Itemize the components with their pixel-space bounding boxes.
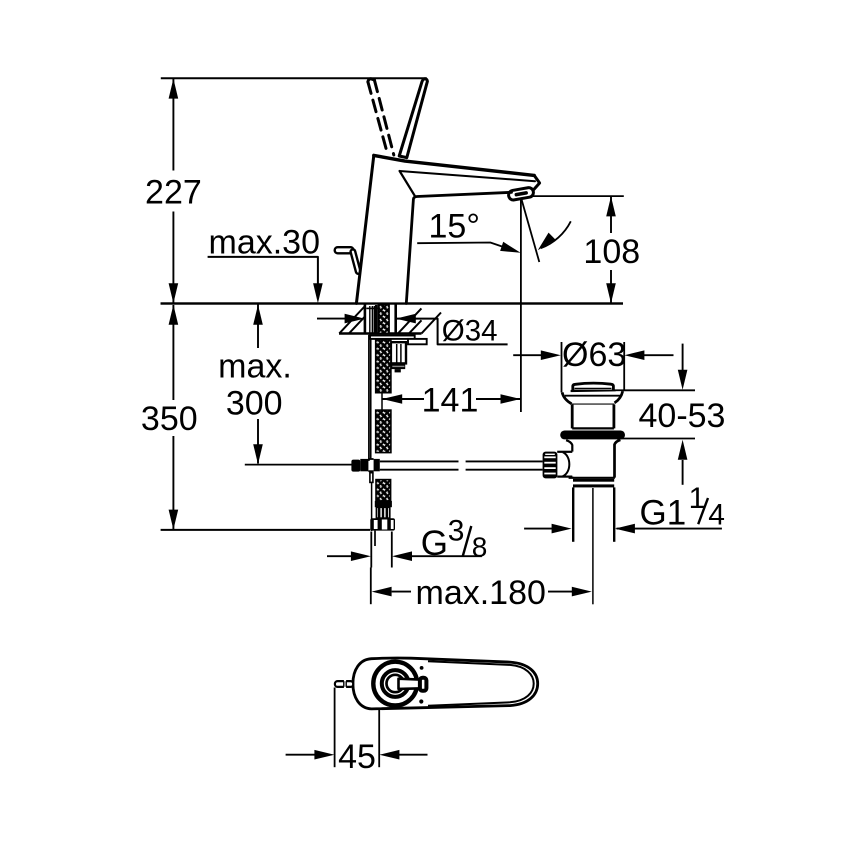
svg-text:max.180: max.180 xyxy=(416,574,546,612)
escutcheon screw dots xyxy=(420,666,424,670)
faucet body left edge xyxy=(356,155,373,303)
hose connector ribs xyxy=(377,507,390,518)
dimension 350 line xyxy=(172,305,174,400)
hose nut G3/8 xyxy=(370,518,395,530)
counter/deck line redraw xyxy=(161,302,623,304)
dimension max.300 line xyxy=(257,305,259,349)
pop-up knob cap xyxy=(573,383,614,391)
drain linkage nut (knurled) xyxy=(543,452,558,479)
mounting clamp bracket xyxy=(391,342,406,363)
hose centerline in dimension gap xyxy=(381,393,383,410)
max.300 reference line xyxy=(245,464,352,466)
washer step xyxy=(408,339,427,344)
dimension diameter 63 xyxy=(561,342,563,392)
countertop hatching left block xyxy=(339,306,365,333)
supply hose (smooth) lines xyxy=(368,335,370,461)
hose ferrule xyxy=(375,501,392,507)
label G 3/8 with dimension xyxy=(370,532,372,568)
15 deg vertical reference line xyxy=(520,198,522,413)
svg-text:40-53: 40-53 xyxy=(639,397,726,435)
drain seal ring xyxy=(560,431,625,440)
drain tailpipe xyxy=(572,487,574,541)
svg-text:227: 227 xyxy=(145,174,202,212)
handle lever (solid, side view) xyxy=(399,79,427,158)
hose tail below rod xyxy=(370,473,373,483)
escutcheon ring xyxy=(373,662,417,706)
shank interior hose lines xyxy=(369,306,371,333)
placeholder groups xyxy=(335,79,540,304)
label G1 1/4 with leader xyxy=(524,528,553,530)
svg-text:3: 3 xyxy=(448,515,465,548)
countertop hatching right block xyxy=(398,308,421,333)
spout underside and body front edge xyxy=(406,192,511,303)
countertop cross-section bottom line xyxy=(339,332,422,334)
braided supply hose lower section xyxy=(376,480,391,501)
svg-text:Ø63: Ø63 xyxy=(562,336,626,374)
svg-text:108: 108 xyxy=(583,233,640,271)
svg-text:4: 4 xyxy=(708,498,725,531)
drain centerline xyxy=(592,488,594,604)
hose pipe stub below nut xyxy=(374,531,376,546)
cartridge ring xyxy=(382,670,409,697)
top view inner edge line xyxy=(428,661,534,706)
top reference line xyxy=(161,77,427,79)
drain thread bands xyxy=(573,479,614,482)
threaded shank walls (above deck) xyxy=(364,304,367,334)
15 deg arc arrow xyxy=(541,221,571,248)
svg-text:45: 45 xyxy=(338,738,376,776)
pull rod xyxy=(380,460,459,462)
braided supply hose mid section xyxy=(376,410,391,453)
dimension 45 (top view) xyxy=(334,688,336,768)
svg-text:141: 141 xyxy=(422,381,479,419)
svg-text:300: 300 xyxy=(226,384,283,422)
temperature limiter pin (side view) xyxy=(335,247,354,253)
svg-text:350: 350 xyxy=(141,400,198,438)
lever stub (top view) xyxy=(399,679,423,689)
svg-text:G: G xyxy=(421,524,448,563)
dimension max.180 xyxy=(370,568,372,605)
svg-text:max.: max. xyxy=(218,348,292,386)
stub end cap xyxy=(420,678,427,691)
dimension 108 xyxy=(524,195,624,197)
limiter pin (top view) xyxy=(335,681,353,687)
svg-text:G1: G1 xyxy=(640,493,687,532)
aerator xyxy=(508,187,534,201)
pull rod fitting xyxy=(351,460,360,472)
drain flare xyxy=(562,391,623,404)
faucet top view outline xyxy=(353,658,538,709)
faucet body fill xyxy=(356,155,539,303)
dimension 40-53 xyxy=(614,389,695,391)
dimension 227 line xyxy=(172,78,174,170)
spout tip xyxy=(534,175,540,189)
dimension diameter 34 xyxy=(317,318,346,320)
drain barrel xyxy=(572,405,614,429)
svg-text:15°: 15° xyxy=(429,207,480,245)
15 deg angled line xyxy=(521,198,539,263)
lever joint circle xyxy=(387,675,404,692)
svg-text:max.30: max.30 xyxy=(209,223,321,261)
dimension 141 xyxy=(382,398,424,400)
spout chamfer line xyxy=(400,171,535,181)
counter/deck line xyxy=(161,302,623,304)
mounting washer xyxy=(370,336,415,339)
faucet body top edge and spout ridge xyxy=(374,155,534,175)
handle lever alternate position (dashed) xyxy=(368,82,387,152)
drain body below seal xyxy=(566,440,572,451)
svg-text:Ø34: Ø34 xyxy=(442,315,498,348)
shank braided column above deck xyxy=(378,305,389,334)
15 deg baseline leader xyxy=(417,243,505,248)
svg-text:8: 8 xyxy=(472,531,488,562)
braided supply hose upper section xyxy=(376,340,391,393)
350 bottom reference line xyxy=(161,529,371,531)
